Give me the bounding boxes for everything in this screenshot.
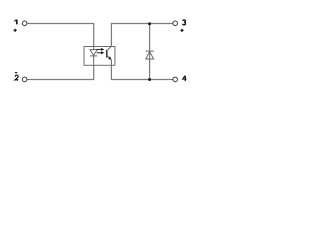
terminal 2 circle xyxy=(22,77,27,82)
wire: collector to terminal 3 xyxy=(111,24,172,47)
terminal 3 circle xyxy=(173,21,178,26)
label 3 xyxy=(183,20,186,25)
node: junction bottom xyxy=(148,78,151,81)
phototransistor Q1 collector xyxy=(107,46,112,50)
phototransistor Q1 emitter arrowhead xyxy=(108,56,111,59)
LED D1 cathode bar xyxy=(90,55,97,57)
optocoupler box U1 xyxy=(84,47,115,66)
wire: diode branch vertical xyxy=(149,24,151,80)
wire: terminal 1 to LED anode xyxy=(27,24,94,47)
label 1 xyxy=(14,20,17,25)
diode D2 triangle xyxy=(146,52,154,60)
plus under 1 xyxy=(14,29,17,32)
minus above 2 xyxy=(15,72,17,74)
terminal 1 circle xyxy=(22,21,27,26)
diode D2 cathode bar xyxy=(146,50,154,52)
label 4 xyxy=(183,76,187,81)
phototransistor Q1 emitter xyxy=(107,55,110,58)
light arrow lower xyxy=(97,51,105,54)
wire: terminal 2 to LED cathode xyxy=(27,65,94,79)
phototransistor Q1 emitter lead xyxy=(110,59,112,65)
label 2 xyxy=(15,75,18,80)
plus under 3 xyxy=(180,29,183,32)
node: junction top xyxy=(148,22,151,25)
LED D1 triangle xyxy=(90,50,97,56)
LED D1 cathode lead xyxy=(93,56,95,65)
wire: emitter to terminal 4 xyxy=(111,65,172,79)
phototransistor Q1 base bar xyxy=(106,50,108,58)
light arrow upper xyxy=(97,48,105,51)
LED D1 (anode lead) xyxy=(93,46,95,49)
terminal 4 circle xyxy=(173,77,178,82)
